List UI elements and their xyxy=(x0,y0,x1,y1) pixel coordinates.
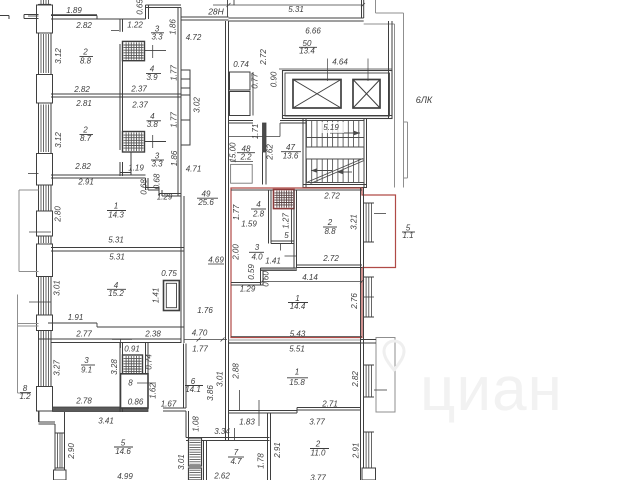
svg-text:1: 1 xyxy=(114,202,118,211)
zigzag wall d xyxy=(158,188,160,197)
svg-text:1.67: 1.67 xyxy=(161,400,177,409)
red apt zigzag v xyxy=(260,268,262,285)
far-left mark xyxy=(0,15,9,17)
left wall bottom pier xyxy=(54,470,67,480)
zigzag wall e xyxy=(159,193,181,195)
corridor bottom wall a xyxy=(163,407,186,409)
window 2.76 xyxy=(364,276,375,278)
corridor step wall xyxy=(185,411,187,438)
left wall pier 4 xyxy=(37,211,53,236)
wall step x=297 xyxy=(296,408,298,414)
svg-text:5.31: 5.31 xyxy=(109,253,125,262)
svg-text:2.62: 2.62 xyxy=(266,144,275,161)
stairs diagonal break xyxy=(308,159,364,183)
vent hatch box top apt xyxy=(123,41,145,60)
svg-text:15.2: 15.2 xyxy=(108,289,124,298)
top dim line 5.31 xyxy=(213,4,363,6)
svg-text:2.72: 2.72 xyxy=(259,49,268,66)
svg-text:1.19: 1.19 xyxy=(128,164,144,173)
top wall upper line xyxy=(51,15,97,17)
svg-text:3.3: 3.3 xyxy=(151,160,163,169)
svg-text:1.77: 1.77 xyxy=(170,65,179,81)
svg-text:14.1: 14.1 xyxy=(185,385,201,394)
room 7 left wall xyxy=(203,441,205,480)
left wall bottom inner xyxy=(64,412,66,480)
svg-text:4.14: 4.14 xyxy=(302,273,318,282)
svg-text:1.41: 1.41 xyxy=(265,257,281,266)
door tick room 9.1 xyxy=(112,338,132,340)
wall 15.2/9.1 step line a xyxy=(48,322,97,324)
svg-text:0.74: 0.74 xyxy=(145,354,154,370)
room 48/47 wall thin xyxy=(262,152,264,185)
left wall window 7 xyxy=(40,331,42,387)
svg-text:4.70: 4.70 xyxy=(192,329,208,338)
left wall pier 5 xyxy=(37,244,53,277)
left wall window 2 xyxy=(40,34,42,73)
svg-text:8: 8 xyxy=(128,379,133,388)
corridor shaft boxes xyxy=(181,70,190,79)
left balcony B xyxy=(17,295,19,394)
svg-text:2.91: 2.91 xyxy=(352,443,361,460)
svg-text:2: 2 xyxy=(315,440,321,449)
door gap room 8.8 xyxy=(119,32,123,44)
left wall top cap xyxy=(39,4,52,6)
svg-text:4.72: 4.72 xyxy=(186,33,202,42)
svg-text:13.6: 13.6 xyxy=(283,152,299,161)
lobby shaft divider xyxy=(252,72,254,116)
svg-text:3.28: 3.28 xyxy=(110,359,119,375)
room 3.3/3.9 divider xyxy=(145,50,167,52)
svg-text:1.22: 1.22 xyxy=(127,21,143,30)
red apt bathroom xyxy=(291,209,293,244)
lobby shaft box 2 xyxy=(230,92,251,116)
window room2 right xyxy=(364,202,375,204)
svg-text:1.91: 1.91 xyxy=(68,313,84,322)
top wall step xyxy=(96,16,98,20)
top raised box xyxy=(145,5,147,19)
svg-text:1.59: 1.59 xyxy=(241,220,257,229)
stairs lower flight xyxy=(307,158,365,160)
corridor right wall long xyxy=(225,21,227,441)
svg-text:1.86: 1.86 xyxy=(169,19,178,35)
svg-text:5.31: 5.31 xyxy=(108,236,124,245)
lobby floor wall left xyxy=(229,120,254,122)
vent hatch box lower apt xyxy=(123,132,145,153)
door tick 1.83 xyxy=(258,400,260,426)
window 2.82 xyxy=(364,364,375,366)
lobby right wall xyxy=(388,21,390,119)
zigzag wall a xyxy=(51,174,146,176)
red apt right wall xyxy=(360,188,362,480)
svg-text:2.90: 2.90 xyxy=(67,443,76,460)
left wall dim tick y=232 xyxy=(29,231,51,233)
left apts inner vertical wall xyxy=(119,19,121,176)
red apt zigzag thick xyxy=(261,267,297,269)
svg-text:2: 2 xyxy=(327,218,333,227)
elevator enclosure outer xyxy=(283,71,393,119)
svg-text:2.38: 2.38 xyxy=(144,330,161,339)
svg-text:2.62: 2.62 xyxy=(213,472,230,480)
left wall bottom outer xyxy=(54,424,56,480)
top shaft wall xyxy=(361,0,363,18)
svg-text:3.41: 3.41 xyxy=(98,417,114,426)
wall 15.2/9.1 double xyxy=(39,338,182,340)
svg-text:2.72: 2.72 xyxy=(322,254,339,263)
svg-text:14.3: 14.3 xyxy=(108,211,124,220)
svg-text:2: 2 xyxy=(82,48,88,57)
svg-text:15.8: 15.8 xyxy=(289,378,305,387)
top right outer outline xyxy=(375,0,377,13)
svg-text:1.86: 1.86 xyxy=(170,150,179,166)
svg-text:2.71: 2.71 xyxy=(321,400,338,409)
svg-text:9.1: 9.1 xyxy=(81,366,92,375)
svg-text:2.00: 2.00 xyxy=(232,244,241,261)
svg-text:3.9: 3.9 xyxy=(146,73,158,82)
red apt room2 left wall xyxy=(293,190,295,268)
svg-text:1.71: 1.71 xyxy=(251,124,260,140)
left wall pier 2 xyxy=(37,75,53,104)
svg-text:1.29: 1.29 xyxy=(157,193,173,202)
watermark logo xyxy=(384,341,404,370)
bottom hatch shaft lower xyxy=(189,468,202,480)
red apt dim line 4.14 xyxy=(262,281,362,283)
wall between rooms 8.8/8.7 xyxy=(51,93,181,95)
svg-text:1.2: 1.2 xyxy=(19,392,31,401)
svg-text:3: 3 xyxy=(84,356,89,365)
svg-text:1.62: 1.62 xyxy=(149,383,158,399)
svg-text:14.4: 14.4 xyxy=(290,302,306,311)
svg-text:1.41: 1.41 xyxy=(152,288,161,304)
zigzag wall b xyxy=(145,178,147,190)
wall room 14.3 bottom xyxy=(51,247,184,249)
svg-text:1.77: 1.77 xyxy=(192,345,208,354)
svg-text:1.89: 1.89 xyxy=(66,6,82,15)
svg-text:5.43: 5.43 xyxy=(290,330,306,339)
red apartment outline xyxy=(231,188,396,338)
left wall bottom window xyxy=(57,433,59,468)
svg-text:1.08: 1.08 xyxy=(192,416,201,432)
shaft stub above corridor xyxy=(227,0,229,17)
niche wall xyxy=(130,152,132,175)
svg-text:3.34: 3.34 xyxy=(214,427,230,436)
elevator dim line 4.64 xyxy=(279,68,392,70)
svg-text:4: 4 xyxy=(256,200,261,209)
left wall thick wall bottom xyxy=(53,407,149,412)
svg-text:0.74: 0.74 xyxy=(233,60,249,69)
svg-text:8.8: 8.8 xyxy=(324,227,336,236)
svg-text:2.82: 2.82 xyxy=(73,85,90,94)
red apt bathroom door tick xyxy=(280,244,282,251)
svg-text:3.01: 3.01 xyxy=(53,280,62,296)
svg-text:1.29: 1.29 xyxy=(240,285,256,294)
stairwell right wall xyxy=(363,119,365,189)
svg-text:14.6: 14.6 xyxy=(115,447,131,456)
room 48/47 wall thick xyxy=(263,123,267,152)
svg-text:4.7: 4.7 xyxy=(230,457,242,466)
svg-text:3.12: 3.12 xyxy=(54,132,63,148)
wc left wall xyxy=(119,343,121,412)
red apt top wall xyxy=(231,189,362,191)
svg-text:5.19: 5.19 xyxy=(323,123,339,132)
svg-text:3.77: 3.77 xyxy=(310,474,326,480)
svg-text:0.75: 0.75 xyxy=(161,269,177,278)
lobby top wall xyxy=(229,17,364,19)
svg-text:6.66: 6.66 xyxy=(305,27,321,36)
svg-text:0.68: 0.68 xyxy=(140,179,149,195)
top wall lower line xyxy=(51,18,146,20)
left wall dim tick y=173.5 xyxy=(28,173,39,175)
svg-text:13.4: 13.4 xyxy=(299,47,315,56)
left wall pier 7 xyxy=(37,387,53,412)
svg-text:2.78: 2.78 xyxy=(75,397,92,406)
svg-text:3.12: 3.12 xyxy=(54,48,63,64)
stairwell left wall xyxy=(302,119,304,189)
stairs upper arrow xyxy=(330,132,360,134)
corridor top wall xyxy=(181,16,229,18)
left wall window 4 xyxy=(40,185,42,211)
wc right wall xyxy=(145,343,147,374)
lobby bottom wall under elevators xyxy=(283,115,393,117)
svg-text:4.64: 4.64 xyxy=(332,58,348,67)
wall 3.34 xyxy=(186,437,235,439)
elevator 2 xyxy=(353,80,380,109)
red apt room2 bottom wall xyxy=(297,264,363,266)
left wall window 5 xyxy=(40,236,42,243)
room 8 tick xyxy=(137,382,156,384)
red apt vent shaft xyxy=(274,190,295,209)
stairs upper flight xyxy=(307,120,365,122)
right wall bottom pier xyxy=(362,468,376,480)
svg-text:11.0: 11.0 xyxy=(311,449,327,458)
svg-text:3.77: 3.77 xyxy=(309,418,325,427)
left wall pier 1 xyxy=(37,5,53,33)
right bay rect xyxy=(376,338,395,413)
svg-text:8.8: 8.8 xyxy=(80,57,92,66)
svg-text:0.91: 0.91 xyxy=(124,345,140,354)
closet box room 48 xyxy=(231,164,253,183)
wall y=407 right part xyxy=(297,407,361,409)
svg-text:2.37: 2.37 xyxy=(131,101,148,110)
svg-text:2.76: 2.76 xyxy=(350,293,359,310)
elevator enclosure inner xyxy=(285,73,390,116)
svg-text:1.77: 1.77 xyxy=(170,112,179,128)
door jamb line xyxy=(279,123,281,137)
svg-text:0.60: 0.60 xyxy=(262,271,271,287)
left wall dim tick y=16 xyxy=(28,15,39,17)
bottom hatch shaft upper xyxy=(189,438,202,466)
svg-text:2.81: 2.81 xyxy=(75,99,92,108)
svg-text:3.3: 3.3 xyxy=(151,33,163,42)
svg-text:5.31: 5.31 xyxy=(288,5,304,14)
lobby floor wall right xyxy=(280,120,306,122)
dim line 1.71 xyxy=(229,136,281,138)
svg-text:2.2: 2.2 xyxy=(239,153,252,162)
svg-text:2.77: 2.77 xyxy=(75,330,92,339)
elevator 1 xyxy=(293,80,341,109)
svg-text:2.80: 2.80 xyxy=(54,206,63,223)
door gap room 8.7 xyxy=(119,150,123,162)
window dim tick 3.21 xyxy=(374,213,386,215)
top-left stub xyxy=(24,14,39,16)
svg-text:25.6: 25.6 xyxy=(197,198,214,207)
svg-text:1.27: 1.27 xyxy=(282,213,291,229)
exterior left wall outer line xyxy=(38,4,40,422)
left wall window 3 xyxy=(40,105,42,153)
svg-text:2.82: 2.82 xyxy=(75,21,92,30)
svg-text:2.37: 2.37 xyxy=(130,85,147,94)
svg-text:0.90: 0.90 xyxy=(270,71,279,87)
svg-text:0.65: 0.65 xyxy=(136,0,145,15)
svg-text:2.8: 2.8 xyxy=(252,210,265,219)
svg-text:5: 5 xyxy=(284,231,289,240)
svg-text:1: 1 xyxy=(295,368,299,377)
svg-text:15.00: 15.00 xyxy=(229,142,238,163)
svg-text:3: 3 xyxy=(255,243,260,252)
corridor lower left wall xyxy=(183,344,185,409)
svg-text:1.77: 1.77 xyxy=(232,204,241,220)
left wall window 1 xyxy=(40,0,42,4)
shaft box 0.75 xyxy=(164,281,180,311)
stairwell bottom wall xyxy=(303,184,367,186)
svg-text:8.7: 8.7 xyxy=(80,134,92,143)
svg-text:1.1: 1.1 xyxy=(402,231,413,240)
door tick room 8.8 xyxy=(111,30,119,32)
stair balcony right xyxy=(404,121,408,123)
left balcony A xyxy=(18,190,20,272)
window 2.91 bottom xyxy=(364,431,375,433)
svg-text:3.01: 3.01 xyxy=(216,371,225,387)
stairs lower arrows xyxy=(311,170,332,172)
top dim line 1.89 xyxy=(51,14,97,16)
room 8 box xyxy=(121,374,149,408)
party wall upper xyxy=(177,8,179,197)
svg-text:0.77: 0.77 xyxy=(251,73,260,89)
svg-text:4.99: 4.99 xyxy=(117,472,133,480)
svg-text:циан: циан xyxy=(420,355,563,424)
bay top wall xyxy=(361,339,377,341)
svg-text:1.76: 1.76 xyxy=(197,306,213,315)
dim line under 2.2 xyxy=(231,161,253,163)
left wall dim tick y=302 xyxy=(29,301,51,303)
top right inner outline xyxy=(364,23,395,25)
svg-text:0.68: 0.68 xyxy=(153,173,162,189)
svg-text:3.02: 3.02 xyxy=(193,97,202,113)
svg-text:2.88: 2.88 xyxy=(232,363,241,380)
exterior left wall inner line xyxy=(50,15,52,406)
left wall pier 3 xyxy=(37,154,53,186)
svg-text:0.86: 0.86 xyxy=(128,398,144,407)
svg-text:3.21: 3.21 xyxy=(350,214,359,230)
room 3.8/3.3 divider xyxy=(145,141,167,143)
svg-text:4.71: 4.71 xyxy=(186,165,202,174)
wall 3.34 right part xyxy=(235,437,270,439)
svg-text:2.91: 2.91 xyxy=(77,178,94,187)
svg-text:3.27: 3.27 xyxy=(53,360,62,376)
left wall window 6 xyxy=(40,277,42,316)
svg-text:7: 7 xyxy=(234,448,239,457)
svg-text:4.69: 4.69 xyxy=(208,256,224,265)
lobby shaft box 1 xyxy=(230,72,251,90)
zigzag wall c xyxy=(146,187,160,189)
wall y=410 left part xyxy=(229,410,298,412)
svg-text:4.0: 4.0 xyxy=(251,253,263,262)
left wall lower segment xyxy=(38,411,40,422)
svg-text:2.82: 2.82 xyxy=(74,162,91,171)
room7/room2 wall xyxy=(267,413,269,480)
left wall pier 6 xyxy=(37,315,53,331)
svg-text:1.83: 1.83 xyxy=(239,418,255,427)
svg-text:28Н: 28Н xyxy=(207,7,224,17)
svg-text:2.91: 2.91 xyxy=(273,442,282,459)
svg-text:3.01: 3.01 xyxy=(177,454,186,470)
svg-text:3.8: 3.8 xyxy=(147,120,159,129)
dim 5.19 xyxy=(320,122,344,133)
svg-text:2.72: 2.72 xyxy=(323,192,340,201)
red apt dim line 5.43 xyxy=(231,336,362,338)
svg-text:2.82: 2.82 xyxy=(351,371,360,388)
svg-text:0.59: 0.59 xyxy=(247,264,256,280)
party wall mid xyxy=(180,196,182,343)
svg-text:5.51: 5.51 xyxy=(289,345,305,354)
svg-text:1.78: 1.78 xyxy=(257,453,266,469)
wall 15.2/9.1 step line b xyxy=(96,323,98,327)
svg-text:6ЛК: 6ЛК xyxy=(416,95,433,105)
room 15.8 top wall xyxy=(229,339,361,341)
left wall step at bottom xyxy=(39,421,56,423)
red apt zigzag bottom xyxy=(231,282,261,284)
red apt bathroom left wall xyxy=(268,190,270,244)
wc hatch box xyxy=(123,355,143,374)
svg-text:3.86: 3.86 xyxy=(206,385,215,401)
